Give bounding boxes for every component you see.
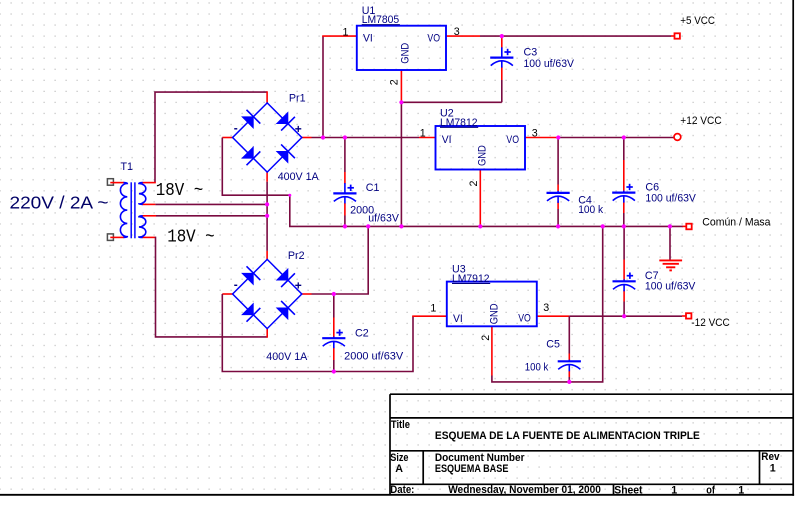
wire ground stem — [669, 226, 671, 259]
svg-text:1: 1 — [770, 463, 776, 475]
junction Pr1-plus / U1 riser — [321, 135, 325, 139]
wire C4 upper lead red part — [557, 185, 559, 192]
svg-text:2000 uf/63V: 2000 uf/63V — [344, 351, 404, 363]
svg-text:VI: VI — [453, 313, 463, 325]
junction bus U1 GND — [399, 224, 403, 228]
wire U3 pin2 (GND) segment — [491, 326, 493, 375]
svg-text:+: + — [295, 122, 302, 136]
svg-text:+12 VCC: +12 VCC — [680, 115, 722, 127]
transformer T1 core — [130, 182, 132, 238]
wire C7 lower lead dark part — [623, 302, 625, 317]
svg-text:2: 2 — [389, 79, 401, 85]
svg-text:VO: VO — [518, 313, 531, 325]
wire T1 secondary1-top to Pr1 top (via riser) — [155, 92, 267, 183]
wire C3 bottom return to U1 GND node — [401, 101, 501, 103]
svg-text:18V ~: 18V ~ — [156, 181, 204, 201]
port -12 VCC (square) — [686, 313, 691, 318]
wire C1 upper lead dark part — [344, 138, 346, 173]
wire Pr2 plus to bus riser — [312, 226, 369, 294]
diode Pr2 top-left — [242, 273, 254, 285]
wire C1 lower lead dark part — [344, 216, 346, 227]
junction bus ground symbol — [668, 224, 672, 228]
svg-text:Pr1: Pr1 — [289, 92, 306, 104]
svg-text:18V ~: 18V ~ — [167, 228, 215, 248]
capacitor C4 symbol — [547, 192, 570, 194]
svg-text:220V / 2A ~: 220V / 2A ~ — [10, 193, 109, 213]
wire C6 lower lead red part — [623, 201, 625, 213]
svg-text:1: 1 — [430, 302, 436, 314]
capacitor C3 symbol — [490, 56, 513, 58]
voltage regulator U3 body — [447, 282, 537, 327]
wire Pr1 bottom to Pr2 top (center tap rail) — [266, 182, 268, 251]
wire T1 primary top stub — [110, 182, 124, 184]
svg-text:Title: Title — [391, 419, 410, 431]
wire T1 secondary1 top stub — [142, 182, 156, 184]
wire C5 lower lead dark part — [568, 377, 570, 382]
wire C6 upper lead dark part — [623, 138, 625, 161]
wire U3 GND rail to bus riser — [492, 226, 603, 382]
wire Pr2 bottom pin stub — [266, 328, 268, 338]
ground symbol (earth) — [659, 260, 682, 270]
bridge rectifier Pr1 body (diamond) — [233, 103, 302, 172]
wire C6 upper lead red part — [623, 160, 625, 191]
capacitor C2 symbol — [322, 337, 345, 339]
wire C5 lower lead red part — [568, 371, 570, 378]
junction bus C1 — [343, 224, 347, 228]
wire Pr2 minus to U3 VI (negative rail) — [222, 294, 413, 372]
diode Pr1 top-left — [242, 117, 254, 129]
svg-text:1: 1 — [420, 127, 426, 139]
svg-text:1: 1 — [671, 484, 677, 496]
svg-text:400V 1A: 400V 1A — [266, 351, 308, 363]
junction C2 bottom / negative rail — [332, 369, 336, 373]
diode Pr1 bottom-left — [242, 147, 254, 159]
wire +5 port stub — [671, 35, 674, 37]
svg-text:VO: VO — [427, 33, 440, 45]
wire C1 upper lead red part — [344, 172, 346, 184]
wire Pr2 left pin stub — [222, 293, 233, 295]
junction bus C6 / C7 — [622, 224, 626, 228]
wire C7 upper lead red part — [623, 260, 625, 280]
wire C2 lower lead dark part — [333, 360, 335, 372]
sheet bottom border — [0, 494, 794, 496]
sheet right border — [792, 0, 794, 496]
capacitor C5 symbol — [558, 360, 581, 362]
svg-text:3: 3 — [543, 302, 549, 314]
svg-text:-12 VCC: -12 VCC — [691, 317, 730, 329]
wire C7 upper lead dark part — [623, 226, 625, 259]
transformer T1 secondary winding 2 — [139, 216, 146, 238]
wire C3 lower lead dark part — [501, 80, 503, 102]
wire -12 port stub — [682, 315, 686, 317]
diode Pr2 bottom-right — [276, 308, 288, 320]
svg-text:400V 1A: 400V 1A — [278, 171, 320, 183]
svg-text:GND: GND — [488, 303, 500, 324]
wire C2 upper lead dark part — [333, 294, 335, 318]
wire Pr2 top pin stub — [266, 251, 268, 261]
junction C3 top / +5 rail — [500, 34, 504, 38]
svg-text:Pr2: Pr2 — [288, 250, 305, 262]
capacitor C1 symbol — [333, 192, 356, 194]
wire Pr2 right pin stub — [301, 293, 312, 295]
svg-text:100 uf/63V: 100 uf/63V — [524, 58, 575, 70]
svg-text:C2: C2 — [355, 328, 369, 340]
svg-text:VO: VO — [506, 134, 519, 146]
diode Pr2 bottom-left — [242, 303, 254, 315]
wire Comun port stub — [683, 225, 687, 227]
port +5 VCC (square) — [675, 33, 680, 38]
wire C6 lower lead dark part — [623, 213, 625, 226]
junction C6 top — [622, 135, 626, 139]
svg-text:100 k: 100 k — [525, 361, 549, 373]
junction bus Pr2-plus riser — [366, 224, 370, 228]
junction bus C4 — [556, 224, 560, 228]
diode Pr1 bottom-right — [276, 151, 288, 163]
wire Pr1 minus to common bus corner — [222, 138, 289, 227]
svg-text:1: 1 — [738, 484, 744, 496]
wire Pr1 top pin stub — [266, 91, 268, 103]
svg-text:VI: VI — [442, 134, 452, 146]
wire C2 lower lead red part — [333, 348, 335, 361]
wire secondary2 bottom to Pr2 bottom — [156, 237, 268, 337]
transformer T1 primary terminal top (square) — [107, 179, 113, 186]
wire C2 upper lead red part — [333, 318, 335, 338]
wire U3 VO to -12 port — [569, 315, 682, 317]
junction center-tap upper — [265, 202, 269, 206]
port Comun / Masa (square) — [686, 224, 691, 230]
wire C4 lower lead dark part — [557, 209, 559, 226]
svg-text:Sheet: Sheet — [614, 484, 643, 496]
wire U2 VO pin segment — [525, 137, 558, 139]
capacitor C6 symbol — [612, 192, 635, 194]
wire Pr1 right pin stub — [301, 137, 312, 139]
svg-text:-: - — [234, 278, 238, 292]
svg-text:+5 VCC: +5 VCC — [680, 15, 715, 27]
wire common bus (Comun/Masa) — [289, 225, 683, 227]
wire Pr1 plus to U2 VI — [312, 137, 420, 139]
bridge rectifier Pr2 body (diamond) — [233, 259, 302, 328]
wire U1 VI riser from Pr1 plus node — [322, 36, 324, 138]
svg-text:100 uf/63V: 100 uf/63V — [645, 193, 696, 205]
svg-text:Rev: Rev — [761, 451, 779, 463]
junction bus U3-GND riser — [601, 224, 605, 228]
voltage regulator U1 body — [357, 26, 446, 70]
svg-text:GND: GND — [399, 43, 411, 64]
wire U3 VO pin segment — [537, 315, 570, 317]
junction C4 top / U2 VO — [556, 135, 560, 139]
wire U1 VO to +5 port — [480, 35, 671, 37]
junction C1 top — [343, 135, 347, 139]
svg-text:100 uf/63V: 100 uf/63V — [645, 281, 696, 293]
wire U1 GND riser to bus — [400, 102, 402, 226]
junction bus U2 GND — [478, 224, 482, 228]
wire secondary2 top to center tap — [156, 215, 267, 217]
wire U2 VI pin segment — [419, 137, 436, 139]
svg-text:2: 2 — [468, 181, 480, 187]
svg-text:100 k: 100 k — [578, 204, 604, 216]
wire U3 VI pin segment — [412, 315, 447, 317]
wire T1 secondary2 top stub — [143, 215, 157, 217]
wire C3 lower lead red part — [501, 67, 503, 81]
title block frame — [390, 394, 793, 494]
transformer T1 primary winding — [120, 183, 127, 238]
svg-text:uf/63V: uf/63V — [368, 212, 399, 224]
svg-text:C1: C1 — [366, 182, 380, 194]
svg-text:ESQUEMA BASE: ESQUEMA BASE — [435, 463, 509, 475]
junction center-tap lower — [265, 214, 269, 218]
svg-text:VI: VI — [363, 33, 373, 45]
svg-text:of: of — [706, 484, 715, 496]
node corner Pr1-minus bend — [288, 194, 291, 197]
wire C7 lower lead red part — [623, 290, 625, 302]
junction C7 bottom / -12 rail — [622, 314, 626, 318]
transformer T1 secondary winding 1 — [139, 183, 146, 205]
capacitor C7 symbol — [613, 280, 636, 282]
svg-text:C3: C3 — [524, 46, 538, 58]
svg-text:A: A — [395, 463, 403, 475]
junction C5 bottom / U3 GND rail — [567, 380, 571, 384]
port +12 VCC (circle) — [674, 134, 681, 141]
svg-text:-: - — [234, 121, 238, 135]
svg-text:Wednesday, November 01, 2000: Wednesday, November 01, 2000 — [448, 484, 601, 496]
transformer T1 primary terminal bottom (square) — [107, 234, 113, 241]
svg-text:3: 3 — [454, 26, 460, 38]
svg-text:ESQUEMA DE LA FUENTE DE ALIMEN: ESQUEMA DE LA FUENTE DE ALIMENTACION TRI… — [435, 430, 700, 442]
wire U1 pin2 (GND) segment — [400, 70, 402, 102]
svg-text:+: + — [295, 279, 302, 293]
diode Pr2 top-right — [276, 269, 288, 281]
wire C4 lower lead red part — [557, 202, 559, 210]
svg-text:1: 1 — [343, 26, 349, 38]
wire U1 VI horizontal — [322, 35, 357, 37]
wire C5 upper lead red part — [568, 354, 570, 361]
svg-text:3: 3 — [532, 127, 538, 139]
svg-text:2: 2 — [480, 335, 492, 341]
svg-text:Date:: Date: — [390, 484, 414, 496]
wire Pr1 left pin stub — [222, 137, 233, 139]
svg-text:T1: T1 — [121, 161, 134, 173]
diode Pr1 top-right — [276, 112, 288, 124]
svg-text:Común / Masa: Común / Masa — [702, 217, 770, 229]
wire Pr1 bottom pin stub — [266, 171, 268, 181]
wire T1 primary bottom stub — [110, 236, 124, 238]
wire T1 secondary1 bottom stub — [142, 203, 155, 205]
voltage regulator U2 body — [436, 126, 526, 170]
svg-text:C5: C5 — [546, 338, 560, 350]
svg-text:C6: C6 — [645, 181, 659, 193]
junction U1 GND / C3 return — [399, 100, 403, 104]
wire C5 upper lead dark part — [568, 316, 570, 353]
wire C3 upper lead red part — [501, 36, 503, 48]
wire U1 VO pin segment — [446, 35, 480, 37]
junction C2 top / Pr2 plus — [332, 292, 336, 296]
wire C1 lower lead red part — [344, 203, 346, 216]
wire U2 VO to +12 port — [558, 137, 673, 139]
svg-text:GND: GND — [476, 145, 488, 166]
wire secondary1 bottom to center tap — [155, 203, 267, 205]
wire C4 upper lead dark part — [557, 138, 559, 185]
wire U2 pin2 (GND) to bus — [479, 170, 481, 227]
wire T1 secondary2 bottom stub — [142, 236, 155, 238]
